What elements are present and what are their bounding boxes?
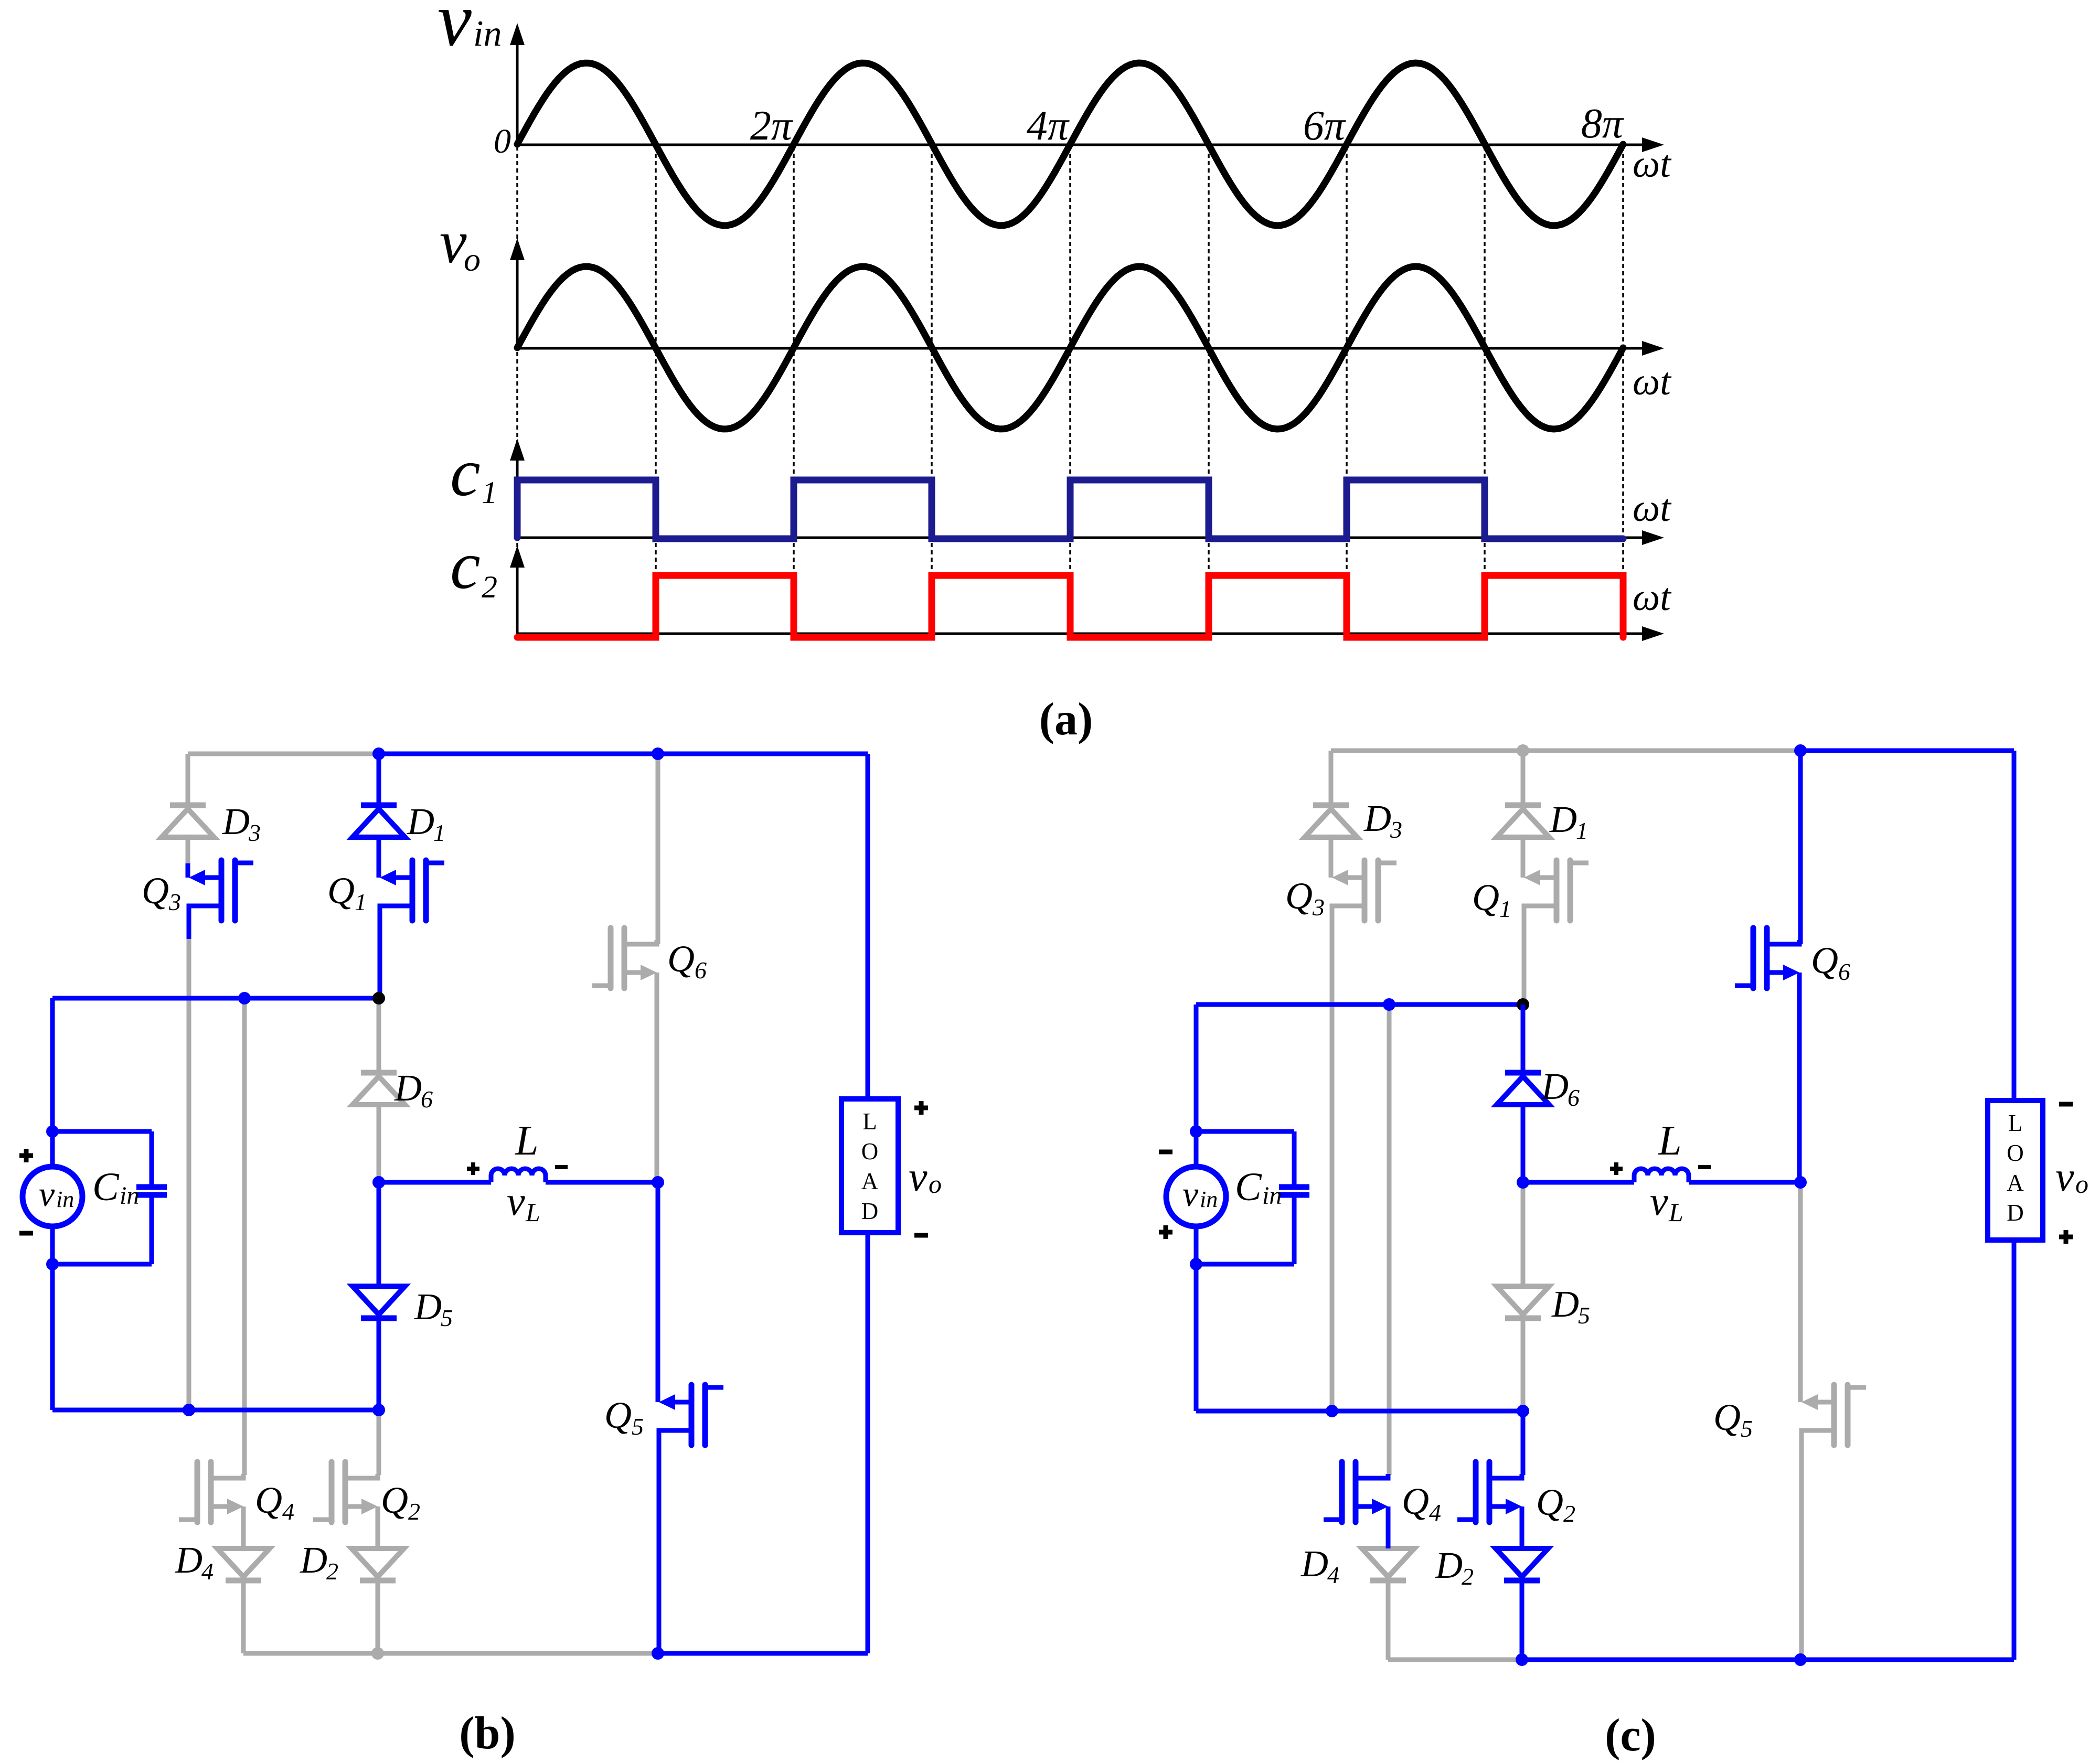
- svg-text:8π: 8π: [1581, 101, 1624, 147]
- svg-text:C: C: [1235, 1165, 1262, 1209]
- svg-text:L: L: [1658, 1118, 1682, 1164]
- svg-text:3: 3: [1390, 816, 1402, 843]
- svg-text:(b): (b): [459, 1708, 516, 1759]
- svg-text:3: 3: [248, 819, 261, 846]
- svg-text:D: D: [414, 1286, 442, 1328]
- svg-text:5: 5: [1741, 1415, 1753, 1442]
- svg-text:6: 6: [695, 957, 707, 984]
- svg-text:L: L: [525, 1198, 540, 1227]
- svg-text:D: D: [394, 1067, 422, 1109]
- svg-text:(a): (a): [1039, 694, 1093, 745]
- svg-text:2: 2: [408, 1498, 420, 1525]
- svg-text:v: v: [438, 0, 472, 62]
- svg-text:L: L: [2008, 1110, 2023, 1136]
- svg-text:v: v: [1650, 1178, 1668, 1224]
- svg-text:Q: Q: [142, 870, 169, 912]
- svg-text:1: 1: [1576, 817, 1588, 844]
- svg-text:ωt: ωt: [1633, 487, 1672, 530]
- svg-text:A: A: [2007, 1170, 2024, 1196]
- svg-text:Q: Q: [327, 870, 355, 912]
- svg-text:5: 5: [441, 1305, 453, 1331]
- svg-text:v: v: [909, 1154, 928, 1200]
- svg-text:D: D: [1300, 1543, 1328, 1585]
- svg-text:C: C: [92, 1165, 120, 1209]
- svg-text:ωt: ωt: [1633, 576, 1672, 619]
- svg-text:2: 2: [1462, 1563, 1474, 1590]
- svg-text:4: 4: [201, 1558, 214, 1585]
- svg-text:in: in: [120, 1182, 139, 1210]
- svg-text:2: 2: [482, 570, 497, 604]
- svg-text:O: O: [2007, 1140, 2024, 1166]
- svg-text:2: 2: [1563, 1500, 1575, 1527]
- svg-text:1: 1: [433, 819, 445, 846]
- svg-text:v: v: [507, 1178, 525, 1224]
- svg-text:(c): (c): [1605, 1710, 1656, 1761]
- svg-text:3: 3: [1312, 894, 1325, 921]
- svg-text:1: 1: [1499, 895, 1511, 922]
- svg-text:D: D: [861, 1198, 879, 1224]
- svg-text:o: o: [464, 241, 481, 278]
- svg-text:Q: Q: [381, 1479, 408, 1521]
- svg-text:D: D: [300, 1539, 327, 1581]
- svg-text:in: in: [1262, 1182, 1282, 1210]
- svg-text:v: v: [2055, 1154, 2074, 1200]
- svg-text:o: o: [2075, 1169, 2088, 1199]
- svg-text:6π: 6π: [1303, 103, 1346, 149]
- svg-text:D: D: [1363, 797, 1391, 839]
- svg-text:0: 0: [494, 122, 511, 161]
- svg-text:3: 3: [168, 889, 181, 915]
- svg-text:ωt: ωt: [1633, 143, 1672, 186]
- svg-text:Q: Q: [1472, 877, 1499, 918]
- svg-text:D: D: [1541, 1065, 1569, 1107]
- svg-text:4: 4: [282, 1498, 294, 1525]
- svg-text:O: O: [861, 1138, 879, 1164]
- svg-text:Q: Q: [667, 938, 695, 980]
- svg-text:6: 6: [1568, 1084, 1580, 1111]
- svg-text:D: D: [222, 800, 250, 842]
- svg-text:in: in: [473, 14, 502, 54]
- svg-text:D: D: [407, 800, 434, 842]
- svg-text:4π: 4π: [1027, 103, 1070, 149]
- svg-text:6: 6: [421, 1086, 433, 1113]
- svg-text:2π: 2π: [750, 103, 793, 149]
- svg-text:D: D: [175, 1539, 202, 1581]
- svg-text:L: L: [515, 1118, 539, 1164]
- svg-text:Q: Q: [1811, 939, 1838, 981]
- svg-text:5: 5: [632, 1413, 644, 1440]
- svg-text:Q: Q: [1285, 875, 1313, 917]
- svg-text:ωt: ωt: [1633, 360, 1672, 403]
- svg-text:D: D: [1549, 798, 1577, 840]
- svg-text:Q: Q: [1402, 1480, 1429, 1522]
- svg-text:v: v: [39, 1174, 55, 1214]
- svg-text:A: A: [861, 1168, 879, 1194]
- svg-text:c: c: [450, 435, 481, 510]
- svg-text:Q: Q: [604, 1394, 632, 1436]
- svg-text:D: D: [1551, 1283, 1579, 1325]
- svg-text:L: L: [862, 1108, 877, 1135]
- svg-text:1: 1: [355, 889, 367, 915]
- svg-text:D: D: [1435, 1544, 1463, 1586]
- svg-text:c: c: [450, 528, 481, 603]
- svg-text:D: D: [2007, 1200, 2024, 1226]
- svg-text:v: v: [1182, 1174, 1199, 1214]
- svg-text:5: 5: [1578, 1302, 1590, 1329]
- svg-text:Q: Q: [1536, 1481, 1563, 1523]
- svg-text:Q: Q: [1713, 1396, 1741, 1438]
- svg-text:Q: Q: [255, 1479, 282, 1521]
- svg-text:2: 2: [326, 1558, 338, 1585]
- svg-text:4: 4: [1327, 1562, 1339, 1588]
- svg-text:4: 4: [1429, 1499, 1441, 1526]
- svg-text:in: in: [56, 1187, 74, 1212]
- svg-text:in: in: [1200, 1187, 1218, 1212]
- svg-text:L: L: [1668, 1198, 1683, 1227]
- svg-text:1: 1: [482, 475, 497, 510]
- svg-text:v: v: [440, 209, 467, 276]
- svg-text:o: o: [929, 1169, 942, 1199]
- svg-text:6: 6: [1838, 958, 1850, 985]
